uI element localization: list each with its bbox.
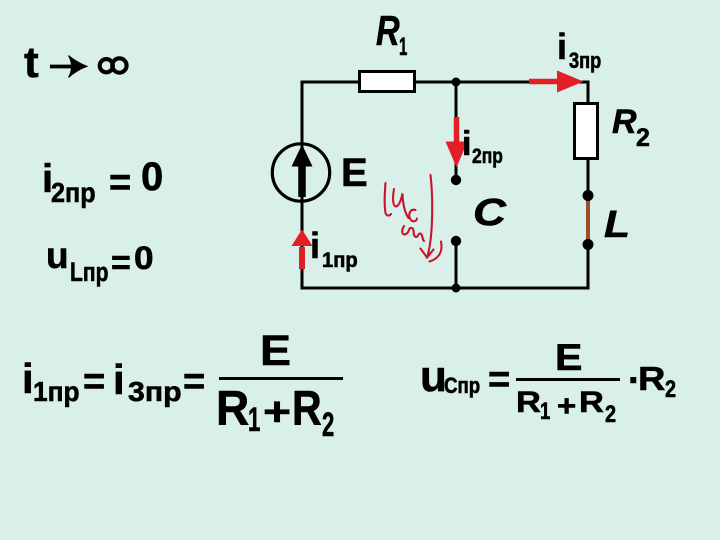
node top junction: [452, 78, 461, 87]
label i1pr: [310, 228, 320, 264]
formula 2: uCpr = E/(R1+R2) . R2: [420, 355, 447, 399]
node capacitor C bottom plate: [451, 236, 461, 246]
infinity glyph: [100, 59, 113, 72]
t arrow glyph: [50, 65, 76, 69]
source E circle: [272, 144, 329, 201]
current arrow i2pr red down: [454, 117, 460, 143]
current arrow i3pr red right: [529, 79, 560, 85]
label t: [24, 41, 39, 85]
label C: [473, 194, 506, 232]
label L: [604, 206, 630, 244]
source E arrow: [298, 163, 306, 197]
node bottom junction: [452, 284, 461, 293]
wire right branch upper: [587, 82, 590, 196]
label i3pr: [557, 29, 567, 65]
wire left branch vertical: [301, 82, 304, 288]
resistor R2: [575, 104, 598, 159]
inductor L shown as brown short-circuit wire: [586, 196, 590, 245]
resistor R1: [360, 72, 415, 92]
handwritten red annotation Uc with arrow: [385, 175, 442, 262]
equation i2pr = 0: [42, 159, 53, 199]
node L top: [583, 190, 594, 201]
current arrow i1pr red up: [299, 247, 305, 269]
wire middle branch lower: [455, 241, 458, 288]
fraction bar 1: [219, 377, 343, 380]
equation uLpr = 0: [46, 237, 69, 274]
formula 1: i1pr = i3pr = E/(R1+R2): [22, 358, 34, 400]
wire middle branch upper: [455, 82, 458, 180]
label i2pr: [462, 127, 471, 161]
label R1: [376, 10, 400, 52]
wire top horizontal: [301, 81, 590, 84]
fraction bar 2: [516, 378, 620, 381]
node capacitor C top plate: [451, 175, 461, 185]
node L bottom: [583, 239, 594, 250]
label E: [341, 153, 368, 193]
wire bottom horizontal: [301, 287, 590, 290]
wire right branch lower: [587, 244, 590, 288]
label R2: [612, 105, 637, 139]
